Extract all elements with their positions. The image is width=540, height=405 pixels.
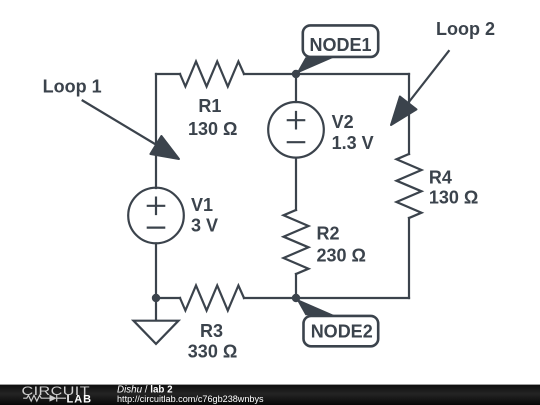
ground bbox=[134, 298, 179, 344]
svg-text:V1: V1 bbox=[191, 195, 213, 215]
label R1 value bbox=[188, 96, 237, 139]
label R3 value bbox=[188, 321, 237, 362]
wire bottom right (corner to NODE2) bbox=[296, 297, 409, 299]
wire R3 to NODE2 bbox=[244, 297, 296, 299]
svg-text:R2: R2 bbox=[317, 224, 340, 244]
voltage source V1 bbox=[128, 188, 184, 244]
node NODE2 dot bbox=[292, 294, 300, 302]
resistor R3 bbox=[180, 286, 244, 311]
annotation Loop 1 arrow bbox=[82, 100, 179, 159]
wire left vertical top (corner to V1) bbox=[155, 74, 157, 188]
svg-text:1.3 V: 1.3 V bbox=[332, 133, 374, 153]
svg-text:http://circuitlab.com/c76gb238: http://circuitlab.com/c76gb238wnbys bbox=[117, 394, 264, 404]
node NODE1 dot bbox=[292, 70, 300, 78]
svg-text:NODE2: NODE2 bbox=[311, 322, 373, 342]
wire right vertical top (corner to R4) bbox=[408, 74, 410, 154]
footer logo CIRCUIT LAB bbox=[22, 385, 93, 405]
svg-text:330 Ω: 330 Ω bbox=[188, 342, 237, 362]
svg-text:LAB: LAB bbox=[67, 393, 93, 405]
svg-text:Loop 1: Loop 1 bbox=[43, 77, 102, 97]
wire R2 to NODE2 bbox=[295, 274, 297, 298]
svg-text:130 Ω: 130 Ω bbox=[429, 187, 478, 207]
node NODE1 flag bbox=[296, 25, 378, 74]
wire NODE1 to V2 top bbox=[295, 74, 297, 102]
wire R1 to NODE1 bbox=[244, 73, 296, 75]
wire top segment (corner to R1 left lead) bbox=[156, 73, 180, 75]
svg-text:R4: R4 bbox=[429, 167, 452, 187]
wire right vertical bottom (R4 to corner) bbox=[408, 218, 410, 298]
svg-text:130 Ω: 130 Ω bbox=[188, 119, 237, 139]
svg-text:R3: R3 bbox=[200, 321, 223, 341]
resistor R1 bbox=[180, 62, 244, 87]
node junction dot (ground) bbox=[152, 294, 160, 302]
label V2 value bbox=[332, 112, 374, 153]
node NODE2 flag bbox=[296, 299, 378, 347]
annotation Loop 2 arrow bbox=[391, 50, 449, 125]
label R2 value bbox=[317, 224, 366, 266]
wire left vertical bottom (V1 to ground junction) bbox=[155, 243, 157, 298]
svg-text:Loop 2: Loop 2 bbox=[436, 19, 495, 39]
footer bar bbox=[0, 385, 540, 405]
voltage source V2 bbox=[268, 102, 324, 158]
wire ground junction to R3 bbox=[156, 297, 180, 299]
svg-text:3 V: 3 V bbox=[191, 216, 218, 236]
svg-text:R1: R1 bbox=[198, 96, 221, 116]
resistor R4 bbox=[397, 154, 422, 218]
svg-text:V2: V2 bbox=[332, 112, 354, 132]
wire NODE1 to top-right corner bbox=[296, 73, 409, 75]
resistor R2 bbox=[284, 210, 309, 274]
label V1 value bbox=[191, 195, 218, 236]
wire V2 bottom to R2 bbox=[295, 158, 297, 210]
label R4 value bbox=[429, 167, 478, 207]
svg-text:230 Ω: 230 Ω bbox=[317, 246, 366, 266]
svg-text:NODE1: NODE1 bbox=[310, 35, 372, 55]
